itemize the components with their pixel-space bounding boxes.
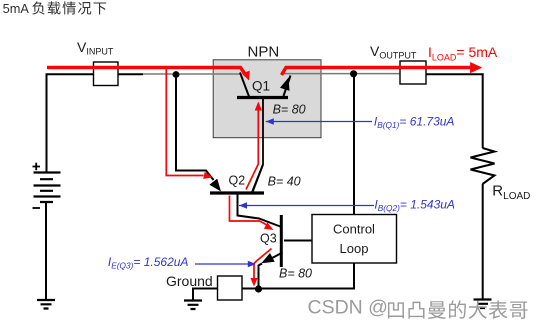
svg-text:Q3: Q3 [260, 232, 277, 246]
svg-text:Ground: Ground [166, 273, 213, 289]
svg-text:Loop: Loop [340, 241, 369, 256]
svg-text:NPN: NPN [248, 43, 280, 60]
svg-text:Control: Control [333, 222, 375, 237]
svg-text:B= 40: B= 40 [268, 174, 301, 188]
svg-text:CSDN @: CSDN @ [308, 297, 388, 319]
svg-text:B= 80: B= 80 [279, 267, 312, 281]
svg-text:5mA: 5mA [3, 1, 30, 16]
svg-text:B= 80: B= 80 [273, 103, 306, 117]
svg-text:Q1: Q1 [252, 79, 270, 94]
svg-text:Q2: Q2 [229, 174, 246, 188]
